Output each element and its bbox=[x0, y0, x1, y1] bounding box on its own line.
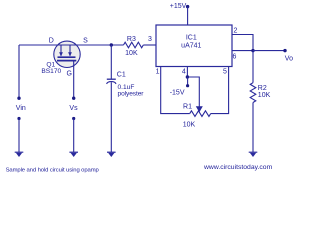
wire pin5 to R1 right bbox=[211, 67, 229, 114]
svg-text:Vin: Vin bbox=[16, 105, 26, 112]
svg-text:-15V: -15V bbox=[170, 90, 185, 97]
wire +15V to box top bbox=[187, 7, 189, 25]
wire stub to -15V terminal bbox=[187, 77, 189, 86]
wire wiper branch bbox=[187, 77, 199, 107]
node junction at C1 top bbox=[110, 43, 113, 46]
resistor R3 bbox=[124, 42, 144, 48]
node Vs terminal bbox=[72, 97, 75, 100]
wire gate down to Vs bbox=[73, 61, 75, 98]
svg-text:Vs: Vs bbox=[69, 105, 78, 112]
svg-text:10K: 10K bbox=[125, 50, 138, 57]
transistor Q1 circle body bbox=[54, 41, 80, 67]
svg-text:www.circuitstoday.com: www.circuitstoday.com bbox=[203, 164, 273, 171]
wiper arrow onto R1 bbox=[196, 106, 203, 112]
ground below Vin bbox=[17, 117, 20, 120]
node Vo terminal bbox=[283, 49, 286, 52]
svg-text:BS170: BS170 bbox=[41, 68, 61, 75]
svg-text:S: S bbox=[83, 38, 88, 45]
wire left vertical to Vin bbox=[18, 45, 20, 98]
svg-text:C1: C1 bbox=[117, 72, 126, 79]
wire pin4 down bbox=[186, 67, 188, 78]
wire to Vo bbox=[253, 50, 285, 52]
wire C1 to ground bbox=[110, 82, 112, 152]
wire R3 right to IC box bbox=[143, 44, 156, 46]
svg-text:D: D bbox=[49, 38, 54, 45]
svg-text:10K: 10K bbox=[183, 121, 196, 128]
svg-text:polyester: polyester bbox=[118, 91, 145, 98]
resistor R1 (preset) bbox=[190, 111, 211, 117]
svg-text:6: 6 bbox=[233, 53, 237, 60]
svg-text:uA741: uA741 bbox=[181, 43, 201, 50]
ground below Vs bbox=[72, 117, 75, 120]
capacitor C1 bbox=[107, 79, 116, 84]
ground below R2 bbox=[249, 152, 258, 153]
svg-text:3: 3 bbox=[148, 36, 152, 43]
wire down to C1 bbox=[110, 45, 112, 79]
op-amp IC1 box bbox=[156, 25, 232, 67]
transistor Q1 internals bbox=[54, 45, 80, 61]
wire top horizontal from left corner to R3 bbox=[19, 44, 124, 46]
svg-text:Vo: Vo bbox=[285, 56, 293, 63]
svg-text:IC1: IC1 bbox=[186, 34, 197, 41]
wire junction down to R2 bbox=[252, 51, 254, 83]
svg-text:1: 1 bbox=[156, 69, 160, 76]
svg-text:10K: 10K bbox=[258, 92, 271, 99]
svg-text:R2: R2 bbox=[258, 85, 267, 92]
wire pin1 to R1 left bbox=[161, 67, 190, 114]
svg-text:5: 5 bbox=[223, 69, 227, 76]
node Vin terminal bbox=[17, 97, 20, 100]
ground below C1 bbox=[107, 152, 116, 153]
svg-text:+15V: +15V bbox=[170, 3, 187, 10]
svg-text:G: G bbox=[66, 71, 71, 78]
svg-text:2: 2 bbox=[234, 28, 238, 35]
svg-text:4: 4 bbox=[182, 69, 186, 76]
svg-text:R1: R1 bbox=[183, 104, 192, 111]
wire pin2 bbox=[232, 35, 253, 51]
wire pin6 bbox=[232, 50, 253, 52]
wire R2 to ground bbox=[252, 103, 254, 153]
node -15V terminal bbox=[186, 84, 189, 87]
svg-text:Sample and hold circuit using: Sample and hold circuit using opamp bbox=[6, 167, 100, 173]
resistor R2 bbox=[250, 83, 256, 103]
node pin4 junction bbox=[186, 75, 189, 78]
node output junction bbox=[251, 49, 254, 52]
svg-text:R3: R3 bbox=[127, 36, 136, 43]
